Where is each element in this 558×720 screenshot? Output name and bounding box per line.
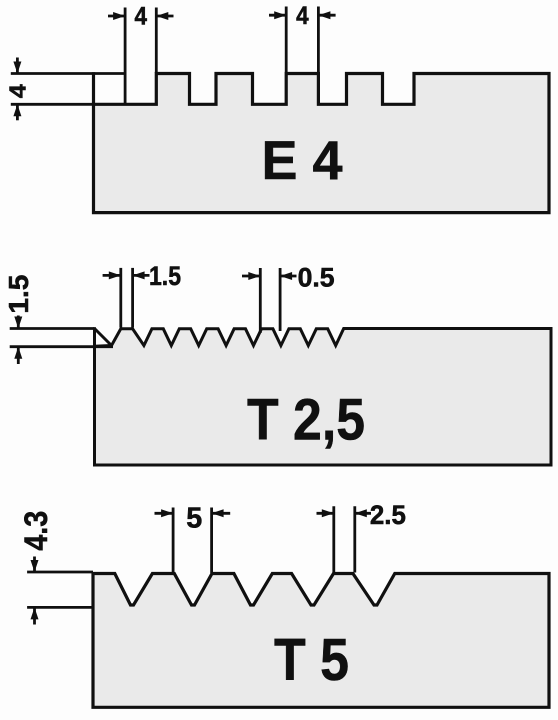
profile body E4: [94, 74, 550, 213]
block edge upper stub T2.5: [93, 327, 96, 346]
svg-text:4: 4: [296, 2, 309, 30]
svg-text:1.5: 1.5: [3, 275, 34, 314]
svg-text:4.3: 4.3: [18, 511, 54, 551]
svg-text:4: 4: [5, 84, 31, 98]
dimension T5 left 4.3 (tooth height): [27, 557, 93, 625]
block edge upper stub E4: [92, 72, 95, 104]
dimension T2.5 left 1.5 (tooth height): [10, 316, 113, 365]
dimension E4 top 4 (tooth width): [269, 7, 336, 73]
dimension T5 top 2.5 (tip width): [317, 506, 372, 572]
svg-text:0.5: 0.5: [298, 262, 335, 292]
dimension T2.5 top 1.5: [103, 268, 150, 328]
svg-text:2.5: 2.5: [370, 500, 406, 530]
profile body T2.5: [95, 329, 552, 466]
svg-text:T 5: T 5: [274, 627, 349, 693]
dimension T5 top 5 (groove width): [155, 508, 231, 574]
profile body T5: [93, 574, 549, 708]
dimension E4 left 4 (tooth height): [11, 58, 125, 121]
svg-text:1.5: 1.5: [149, 261, 181, 291]
svg-text:4: 4: [134, 3, 147, 31]
svg-text:T 2,5: T 2,5: [247, 388, 365, 453]
dimension T2.5 top 0.5: [242, 268, 297, 333]
dimension E4 top 4 (groove width): [108, 8, 174, 104]
svg-text:5: 5: [186, 502, 202, 534]
svg-text:E 4: E 4: [262, 130, 344, 191]
T2.5 lead-in flank line: [95, 329, 112, 346]
